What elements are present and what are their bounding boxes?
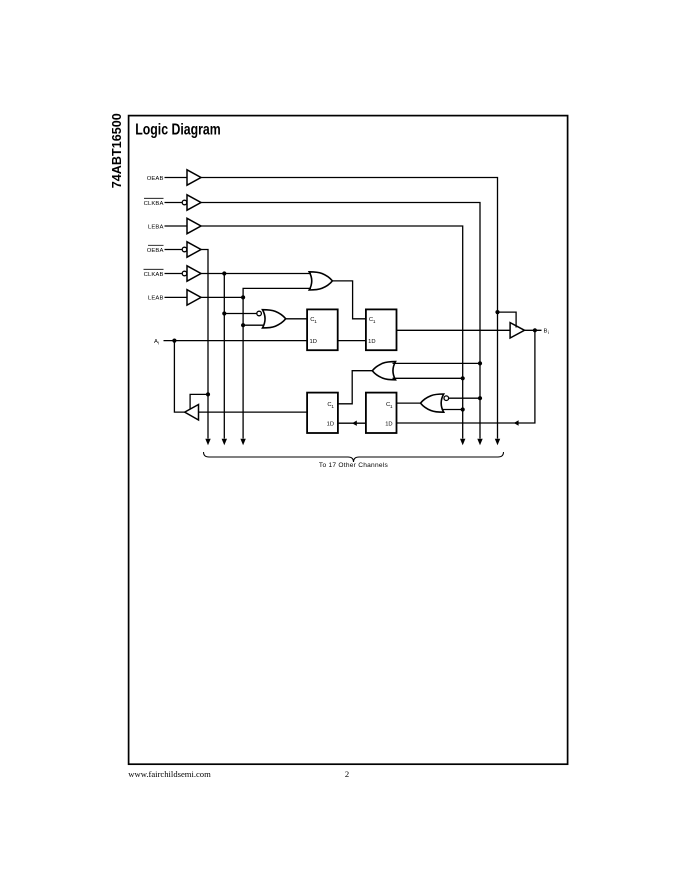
latch L3 [307, 393, 338, 433]
junction Bi feedback [533, 328, 537, 332]
svg-text:1D: 1D [368, 339, 375, 345]
wire LEAB label to buffer [165, 296, 188, 298]
svg-text:LEAB: LEAB [148, 296, 163, 302]
svg-text:i: i [158, 340, 159, 345]
wire G4 lower input to LEBA bus [442, 409, 463, 411]
svg-text:2: 2 [345, 769, 349, 779]
svg-text:1: 1 [314, 319, 317, 324]
svg-text:LEBA: LEBA [148, 224, 163, 230]
junction Ai feedback [172, 339, 176, 343]
svg-text:www.fairchildsemi.com: www.fairchildsemi.com [128, 769, 211, 779]
junction OEBA enable [206, 392, 210, 396]
arrowhead L4 to L3 direction [352, 421, 357, 426]
inverter bubble OEBA [182, 247, 187, 252]
inverter bubble G2 input [257, 311, 262, 316]
bus arrow OEBA [205, 439, 210, 446]
arrowhead Bi feedback direction [514, 420, 519, 425]
svg-text:CLKAB: CLKAB [144, 272, 164, 278]
wire OEBA branch to A buffer enable [190, 394, 208, 409]
buffer B output (tri-state) [510, 323, 524, 338]
wire OEBA buffer output down left bus [201, 250, 208, 439]
wire CLKAB branch to NOR G2 upper input [224, 313, 256, 315]
inverter bubble G4 input [444, 396, 449, 401]
wire CLKAB buffer output to OR gate upper input [201, 273, 311, 275]
brace to 17 other channels [204, 452, 504, 462]
svg-text:1: 1 [331, 404, 334, 409]
wire LEAB branch to NOR G2 lower input [243, 324, 264, 326]
wire LEBA label to buffer [165, 225, 188, 227]
junction LEAB bus [241, 295, 245, 299]
latch L1 [307, 309, 338, 350]
buffer LEAB [187, 290, 201, 305]
wire G3 upper input to CLKBA bus [393, 362, 481, 364]
svg-text:OEBA: OEBA [147, 248, 164, 254]
wire LEAB bus vertical with top corner to OR gate lower input [243, 288, 311, 438]
junction CLKBA to G3 [478, 361, 482, 365]
svg-text:1D: 1D [327, 422, 334, 428]
junction CLKBA to G4 [478, 396, 482, 400]
nor-gate G4 mirrored (CLKBA+LEBA for latch4) [421, 394, 444, 412]
wire G2 output to latch1 C1 [286, 318, 307, 320]
latch L2 [366, 309, 397, 350]
wire Ai feedback down to output buffer tip [174, 341, 184, 413]
svg-text:CLKBA: CLKBA [144, 201, 164, 207]
svg-text:1D: 1D [385, 422, 392, 428]
wire LEBA buffer output to right bus corner [201, 226, 463, 439]
svg-text:B: B [544, 329, 548, 335]
junction LEBA to G4 [461, 407, 465, 411]
bus arrow LEAB [240, 439, 245, 446]
buffer LEBA [187, 218, 201, 233]
svg-text:1D: 1D [310, 339, 317, 345]
buffer CLKAB [187, 266, 201, 281]
svg-text:OEAB: OEAB [147, 176, 164, 182]
buffer CLKBA [187, 195, 201, 210]
wire OEBA label to bubble [165, 249, 183, 251]
bus arrow CLKAB [222, 439, 227, 446]
bus arrow CLKBA [477, 439, 482, 446]
wire L4 output to L3 1D [338, 422, 366, 424]
svg-text:1: 1 [373, 319, 376, 324]
wire Bi feedback down and left to latch4 1D [397, 330, 535, 423]
wire B buffer output to Bi pad [525, 329, 542, 331]
junction LEBA to G3 [461, 376, 465, 380]
or-gate G3 mirrored (CLKBA+LEBA clock for latch3) [372, 362, 395, 380]
wire CLKBA label to bubble [165, 202, 183, 204]
latch L4 [366, 393, 397, 433]
svg-text:1: 1 [390, 404, 393, 409]
wire OEAB label to buffer [165, 177, 188, 179]
junction OEAB enable [495, 310, 499, 314]
wire CLKAB label to bubble [165, 273, 183, 275]
wire G3 lower input to LEBA bus [393, 377, 463, 379]
inverter bubble CLKBA [182, 200, 187, 205]
svg-text:To 17 Other Channels: To 17 Other Channels [319, 462, 389, 469]
svg-text:74ABT16500: 74ABT16500 [110, 113, 124, 188]
buffer OEBA [187, 242, 201, 257]
wire CLKBA buffer output to right bus corner [201, 203, 480, 439]
wire G4 output to latch4 C1 [397, 402, 421, 404]
page border frame (decorative) [129, 116, 568, 765]
wire OEAB branch to B buffer enable [498, 312, 517, 327]
wire G1 output to latch2 C1 [332, 281, 366, 319]
or-gate G2 (clock for latch1) [263, 310, 286, 328]
wire G4 upper input to CLKBA bus [449, 397, 480, 399]
wire CLKAB vertical bus down [223, 274, 225, 439]
buffer OEAB [187, 170, 201, 185]
wire L2 output to B output buffer [397, 329, 511, 331]
bus arrow LEBA [460, 439, 465, 446]
junction LEAB to G2 [241, 323, 245, 327]
wire G3 output to latch3 C1 [338, 371, 372, 404]
or-gate G1 (CLKAB+LEAB) [309, 272, 332, 290]
svg-text:Logic Diagram: Logic Diagram [135, 120, 221, 138]
inverter bubble CLKAB [182, 271, 187, 276]
wire OEAB buffer output to right bus corner [201, 178, 498, 439]
buffer A output (tri-state, points left) [185, 405, 199, 421]
junction CLKAB bus [222, 271, 226, 275]
wire LEAB buffer output to bus [201, 296, 243, 298]
wire L3 output to A buffer [199, 411, 308, 413]
wire L1 output to L2 1D [338, 340, 366, 342]
svg-text:i: i [548, 330, 549, 335]
wire Ai input line to latch1 1D [164, 340, 308, 342]
bus arrow OEAB [495, 439, 500, 446]
junction CLKAB to G2 [222, 311, 226, 315]
